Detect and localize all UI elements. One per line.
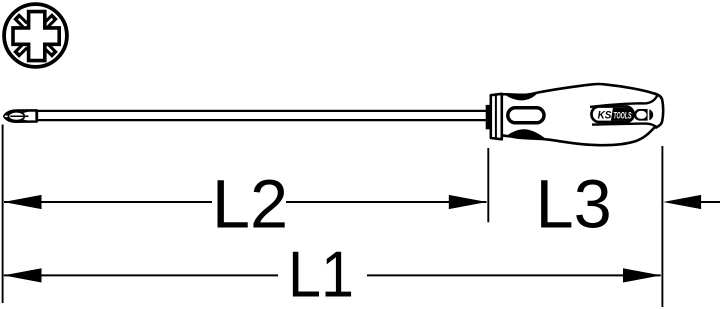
extension line right	[661, 146, 663, 307]
handle grip top band	[503, 92, 538, 100]
L1 dimension line right segment	[367, 274, 661, 276]
pozidriv tick bottom-right	[44, 44, 55, 55]
TOOLS black box	[611, 108, 632, 121]
pozidriv cross	[13, 12, 59, 61]
handle outline	[502, 84, 663, 145]
L3 arrow tail line	[700, 201, 720, 203]
L2 left arrowhead	[3, 195, 41, 209]
end cap top line	[590, 95, 657, 107]
svg-text:KS: KS	[598, 110, 612, 122]
pozidriv symbol circle	[4, 4, 67, 67]
end cap pill	[634, 109, 653, 121]
L1 left arrowhead	[3, 268, 41, 282]
tip point wedge	[5, 113, 10, 120]
tip wing upper	[22, 111, 29, 113]
extension line middle	[487, 148, 489, 222]
L2 dimension line right segment	[286, 201, 487, 203]
handle oval hole	[508, 108, 544, 123]
pozidriv tick top-right	[44, 16, 55, 27]
svg-text:L3: L3	[535, 166, 611, 243]
tip wing lower	[22, 120, 29, 122]
tip-shaft boundary line	[35, 110, 37, 122]
ferrule cone inner line	[495, 95, 497, 139]
L1 dimension line left segment	[4, 274, 278, 276]
extension line left	[2, 125, 4, 304]
svg-text:L1: L1	[288, 238, 354, 309]
end cap bottom line	[592, 124, 657, 129]
shaft bottom line	[35, 119, 487, 121]
tip recess ellipse	[8, 112, 24, 121]
pozidriv tick top-left	[16, 16, 27, 27]
shaft top line	[35, 110, 487, 112]
pill white slit	[648, 109, 650, 121]
tip point slit	[5, 115, 10, 117]
L3 right outside arrowhead	[663, 195, 701, 209]
tip center line	[10, 115, 28, 117]
handle grip bottom band	[508, 129, 547, 139]
L2 right arrowhead	[449, 195, 487, 209]
KS TOOLS logo box	[592, 107, 634, 123]
pozidriv tick bottom-left	[16, 44, 27, 55]
ferrule dark collar	[486, 105, 491, 129]
ferrule cone	[491, 94, 502, 140]
pill white ellipse	[636, 111, 646, 119]
L2 dimension line left segment	[4, 201, 212, 203]
L1 right arrowhead	[623, 268, 661, 282]
screwdriver tip outline	[4, 110, 37, 121]
svg-text:L2: L2	[212, 166, 288, 243]
svg-text:TOOLS: TOOLS	[613, 110, 632, 121]
